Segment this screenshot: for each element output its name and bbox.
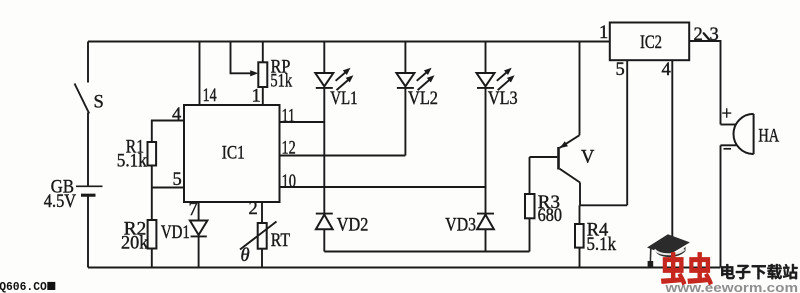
svg-text:IC1: IC1: [222, 144, 245, 164]
thermistor RT: [240, 222, 290, 268]
svg-text:Q606.CO: Q606.CO: [0, 280, 47, 293]
svg-text:HA: HA: [758, 127, 779, 147]
LED VL2: [396, 42, 438, 110]
wire IC2 pin 4 to ground: [662, 60, 673, 272]
svg-text:4: 4: [172, 105, 181, 125]
svg-text:5: 5: [616, 60, 625, 80]
svg-text:VL3: VL3: [488, 89, 518, 109]
wire pin 5: [152, 170, 184, 190]
svg-text:S: S: [94, 93, 104, 113]
wire pin 10: [280, 172, 486, 192]
wire battery to ground rail: [87, 195, 89, 267]
svg-text:12: 12: [282, 138, 296, 158]
wire pin 11: [280, 106, 325, 126]
svg-text:IC2: IC2: [640, 33, 662, 53]
resistor R1 5.1k: [117, 138, 156, 188]
svg-text:5.1k: 5.1k: [587, 235, 617, 255]
svg-text:2: 2: [249, 199, 258, 219]
svg-text:20k: 20k: [121, 234, 149, 254]
svg-text:VD1: VD1: [161, 223, 190, 243]
wire switch to battery: [87, 113, 89, 187]
svg-text:θ: θ: [241, 246, 250, 266]
wire IC2 pins 2,3 to sounder: [689, 25, 720, 125]
wire bottom ground rail: [88, 267, 721, 269]
svg-text:RT: RT: [271, 231, 290, 251]
transistor V (PNP): [530, 42, 596, 206]
IC1 U1: [184, 105, 280, 202]
watermark cap logo: [647, 234, 690, 267]
svg-text:V: V: [581, 148, 595, 168]
battery GB 4.5V: [44, 178, 103, 212]
wire pin 2: [249, 199, 263, 223]
svg-text:VD2: VD2: [337, 216, 369, 236]
svg-text:VL2: VL2: [408, 89, 438, 109]
pin 1 label: [252, 87, 261, 107]
pin 5 label IC2: [616, 60, 625, 80]
svg-text:10: 10: [282, 172, 297, 192]
LED VL3: [477, 42, 518, 110]
wire pin 4: [152, 105, 184, 142]
potentiometer RP 51k: [231, 42, 293, 106]
svg-text:51k: 51k: [270, 71, 292, 91]
wire sounder to ground rail: [720, 145, 722, 267]
wire VL2 cathode to pin 12: [404, 88, 406, 156]
wire collector node to IC2 pin 5: [580, 60, 627, 205]
wire VL1 cathode down to VD2: [323, 88, 325, 214]
svg-text:680: 680: [538, 206, 562, 226]
svg-text:+: +: [722, 105, 732, 125]
resistor R4 5.1k: [575, 205, 617, 267]
svg-text:14: 14: [203, 86, 217, 106]
wire left branch upper segment: [87, 42, 89, 83]
wire pin 14 to rail: [200, 42, 217, 106]
watermark red brand text: [661, 253, 712, 285]
resistor R3 680: [525, 157, 562, 252]
svg-text:4: 4: [662, 60, 671, 80]
pin 1 label IC2: [599, 23, 608, 43]
wire VL3 cathode down to VD3: [485, 88, 487, 214]
diode VD1: [161, 221, 208, 268]
LED VL1: [315, 42, 357, 110]
diode VD3: [445, 214, 494, 252]
svg-text:5.1k: 5.1k: [117, 152, 148, 172]
wire diode anodes to R3: [324, 251, 529, 253]
diode VD2: [316, 214, 369, 252]
watermark url text: [664, 280, 798, 293]
svg-text:4.5V: 4.5V: [44, 192, 77, 212]
watermark Q606.COM: [0, 280, 55, 293]
sounder HA: [721, 105, 780, 155]
switch S: [75, 84, 104, 114]
IC2 U2: [610, 23, 689, 61]
svg-text:1: 1: [252, 87, 261, 107]
wire pin 12: [280, 138, 406, 158]
svg-text:7: 7: [189, 200, 198, 220]
svg-text:VL1: VL1: [330, 89, 357, 109]
svg-text:1: 1: [599, 23, 608, 43]
wire pin 7: [189, 200, 199, 221]
resistor R2 20k: [121, 188, 156, 268]
svg-text:5: 5: [173, 170, 182, 190]
svg-text:2: 2: [694, 25, 703, 45]
svg-text:11: 11: [282, 106, 296, 126]
svg-text:VD3: VD3: [445, 216, 476, 236]
svg-text:www.eeworm.com: www.eeworm.com: [664, 280, 798, 293]
svg-text:3: 3: [710, 25, 719, 45]
watermark site name text: [721, 264, 797, 279]
wire top supply rail: [88, 41, 610, 43]
